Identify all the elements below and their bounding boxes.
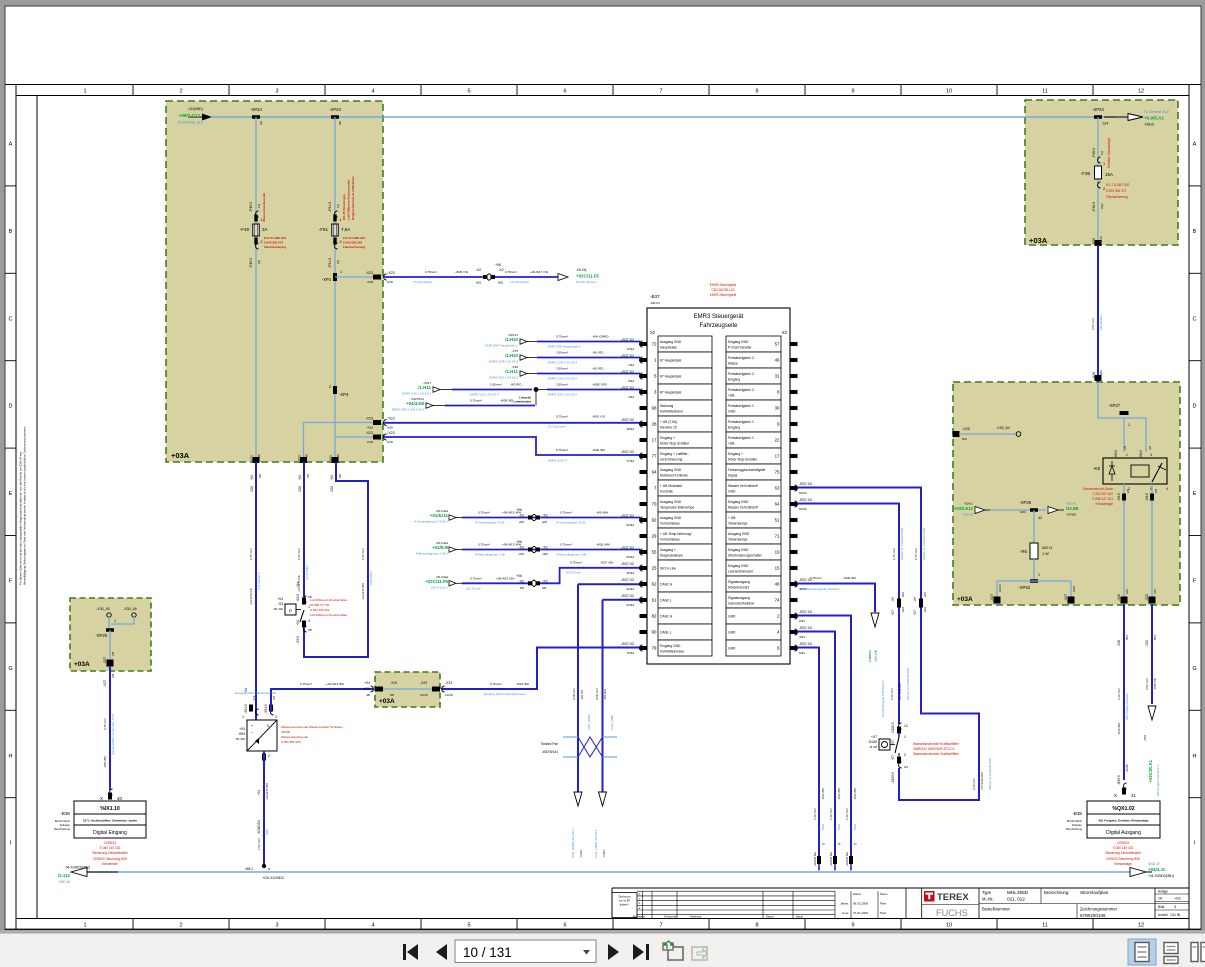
svg-text:2: 2 [179, 923, 182, 929]
svg-text:-F8xx5: -F8xx5 [1144, 123, 1154, 127]
svg-text:/22.B8: /22.B8 [1066, 506, 1079, 511]
svg-text:+04: +04 [250, 475, 254, 481]
svg-text:28/94: 28/94 [626, 427, 634, 431]
svg-text:/1.H10: /1.H10 [505, 353, 518, 358]
svg-text:Klimarelais mit Diode: Klimarelais mit Diode [1083, 487, 1113, 491]
wire: -XP4 column lower runs [334, 281, 336, 462]
K1 bottom edge connectors -X20 [253, 457, 260, 463]
svg-text:30: 30 [775, 406, 780, 411]
svg-text:H-W Niveau S: H-W Niveau S [257, 572, 261, 590]
svg-text:M.-Nr.:: M.-Nr.: [982, 897, 995, 902]
svg-text:+03A: +03A [957, 596, 973, 603]
svg-text:Vorheizlampe: Vorheizlampe [660, 538, 680, 542]
svg-text:Pedalwertgeber 2: Pedalwertgeber 2 [728, 372, 754, 376]
svg-text:Bestellnummer: Bestellnummer [982, 907, 1011, 912]
svg-text:92: 92 [652, 518, 657, 523]
svg-text:+04-XGND2: +04-XGND2 [262, 875, 285, 880]
svg-text:17: 17 [652, 438, 657, 443]
svg-text:5/6: 5/6 [1154, 488, 1158, 493]
svg-text:7,5A: 7,5A [341, 227, 350, 232]
svg-text:-XP4: -XP4 [339, 392, 349, 397]
svg-text:-B37:X2: -B37:X2 [621, 546, 634, 550]
page layout icon: single page (active) [1128, 939, 1156, 965]
svg-text:1: 1 [1103, 162, 1105, 166]
svg-text:-YBJ: -YBJ [1143, 735, 1147, 742]
wire row3 with junction -XL60 [452, 389, 532, 391]
svg-text:Ausgang GND: Ausgang GND [660, 340, 682, 344]
CAN down arrows [574, 792, 582, 806]
svg-text:1,50 mm²: 1,50 mm² [257, 838, 261, 850]
bottom toolbar background [0, 930, 1205, 934]
wire: S54 pin3 feed [271, 689, 373, 712]
svg-text:0,58 mm²: 0,58 mm² [572, 688, 576, 700]
svg-text:-W20 /YE: -W20 /YE [592, 415, 605, 419]
svg-text:102: 102 [1125, 589, 1129, 594]
svg-text:+07: +07 [871, 735, 877, 739]
svg-text:+ UB Temp.Warnung/: + UB Temp.Warnung/ [660, 532, 692, 536]
svg-text:GND: GND [728, 410, 736, 414]
svg-text:b05: b05 [476, 281, 481, 285]
svg-text:/1.H10: /1.H10 [505, 337, 518, 342]
svg-text:Stromlaufplan: Stromlaufplan [1080, 890, 1109, 895]
svg-text:61: 61 [652, 598, 657, 603]
svg-text:Eingang GND: Eingang GND [728, 500, 749, 504]
svg-text:9/18: 9/18 [1072, 586, 1076, 592]
svg-text:+03A: +03A [171, 451, 190, 460]
svg-text:Eingang GND: Eingang GND [660, 644, 681, 648]
svg-text:p05: p05 [519, 520, 524, 524]
svg-text:%IX1.10: %IX1.10 [100, 806, 120, 812]
svg-text:+02C/11.F5: +02C/11.F5 [576, 274, 599, 279]
svg-text:25: 25 [652, 566, 657, 571]
svg-text:S 591 660 982: S 591 660 982 [310, 608, 330, 612]
wire: fuse column 2 (light blue) [334, 117, 336, 277]
svg-text:1,00 mm²: 1,00 mm² [361, 548, 365, 560]
toolbar page combobox [455, 940, 596, 963]
svg-text:H: H [9, 753, 13, 759]
svg-text:Name: Name [880, 892, 888, 896]
svg-text:0,75mm²: 0,75mm² [478, 543, 490, 547]
svg-text:LD-Schalter: LD-Schalter [305, 565, 309, 580]
K2 circles -X30_45 -X30_48 [107, 613, 111, 617]
svg-text:-S150:X: -S150:X [891, 771, 895, 783]
svg-text:29: 29 [652, 534, 657, 539]
svg-text:Eingang + Luftfilter-: Eingang + Luftfilter- [660, 452, 689, 456]
svg-text:Wasser im Kraftstoff: Wasser im Kraftstoff [728, 506, 758, 510]
svg-text:Eingang: Eingang [728, 378, 740, 382]
svg-text:5 030 652 007: 5 030 652 007 [264, 241, 284, 245]
svg-text:9B: 9B [336, 454, 340, 458]
svg-text:SSV-XDRV: SSV-XDRV [369, 571, 373, 585]
svg-text:1/6: 1/6 [1123, 445, 1127, 450]
svg-text:3: 3 [275, 89, 278, 95]
svg-text:CAN2 H: CAN2 H [660, 583, 673, 587]
svg-text:+04/4.J1: +04/4.J1 [1148, 867, 1166, 872]
svg-text:12: 12 [1138, 923, 1144, 929]
svg-text:1: 1 [340, 270, 342, 274]
svg-text:4: 4 [371, 89, 374, 95]
svg-text:502: 502 [1125, 635, 1129, 640]
svg-text:-S54: -S54 [238, 732, 245, 736]
resistor -R6 600 Ohm [1033, 510, 1035, 543]
svg-text:Eingang: Eingang [728, 426, 740, 430]
svg-text:-XP365: -XP365 [1066, 513, 1076, 517]
svg-text:1/4: 1/4 [252, 695, 256, 700]
connector -XP29 [106, 628, 114, 632]
toolbar next-view icon (disabled) [692, 947, 707, 960]
svg-text:+UB: +UB [728, 442, 735, 446]
svg-text:e06: e06 [923, 592, 927, 597]
svg-text:Ausgang GND: Ausgang GND [728, 532, 750, 536]
svg-text:Eingang GND: Eingang GND [728, 548, 749, 552]
svg-text:-W24 /BU: -W24 /BU [516, 682, 529, 686]
svg-text:Ort: Ort [1158, 897, 1163, 901]
svg-text:40: 40 [117, 796, 122, 801]
svg-text:+ UB Motorlauf: + UB Motorlauf [660, 484, 682, 488]
svg-text:EMR3 X2R:1 K5 K5.3: EMR3 X2R:1 K5 K5.3 [489, 360, 518, 364]
fuse -F36 15A [1095, 166, 1102, 179]
svg-text:10 / 131: 10 / 131 [463, 945, 512, 960]
svg-text:-B37:X2: -B37:X2 [621, 386, 634, 390]
svg-text:-S54:X: -S54:X [244, 703, 248, 714]
drawing frame outer border [5, 84, 1201, 86]
svg-text:55/94: 55/94 [626, 555, 634, 559]
svg-text:D: D [9, 404, 13, 410]
svg-text:Ölwarnlampe: Ölwarnlampe [728, 522, 748, 526]
svg-text:+02C/11.F6: +02C/11.F6 [425, 579, 448, 584]
svg-text:77/94: 77/94 [626, 459, 634, 463]
svg-text:Flachsicherung: Flachsicherung [1106, 195, 1128, 199]
svg-text:1: 1 [1038, 573, 1040, 577]
svg-text:X: X [100, 796, 103, 801]
svg-text:+ UB: + UB [728, 516, 736, 520]
svg-text:EMR GND Hauptrelais.2: EMR GND Hauptrelais.2 [548, 345, 581, 349]
svg-text:8.S.711.685-002: 8.S.711.685-002 [343, 236, 365, 240]
svg-text:-W5 /WH: -W5 /WH [596, 511, 608, 515]
svg-text:G60: G60 [1020, 510, 1026, 514]
svg-text:10/18: 10/18 [420, 693, 428, 697]
svg-text:68: 68 [652, 406, 657, 411]
svg-text:3B: 3B [308, 628, 312, 632]
svg-text:+03/2.E12: +03/2.E12 [954, 506, 974, 511]
svg-text:87 Hauptrelais: 87 Hauptrelais [660, 359, 682, 363]
svg-text:TEREX: TEREX [937, 892, 969, 903]
svg-text:62: 62 [652, 582, 657, 587]
svg-text:74: 74 [775, 598, 780, 603]
wire: into -XP27 and relay coil [1098, 382, 1146, 452]
svg-text:Masse: Masse [728, 362, 738, 366]
svg-text:Wasser im Kraftstoff: Wasser im Kraftstoff [728, 484, 758, 488]
svg-text:F2 Klemme 15.6: F2 Klemme 15.6 [1144, 110, 1169, 114]
svg-text:-X10(MB1): -X10(MB1) [188, 107, 203, 111]
svg-text:GND.AL: GND.AL [1066, 502, 1078, 506]
svg-text:-S54:X: -S54:X [264, 703, 268, 714]
svg-text:ISO K-Line.1: ISO K-Line.1 [431, 585, 449, 589]
svg-text:Wasser im Kraftstoff GND: Wasser im Kraftstoff GND [906, 668, 910, 700]
left edge connector -X26 with -X30_84 [953, 431, 960, 437]
svg-text:Fahrzeuggeschwindigkeit: Fahrzeuggeschwindigkeit [728, 468, 765, 472]
svg-text:1: 1 [1126, 453, 1128, 457]
svg-text:Software: Software [1072, 823, 1083, 827]
svg-text:-W2 /RD: -W2 /RD [592, 367, 604, 371]
svg-text:Gebläse Klimaanlage: Gebläse Klimaanlage [1107, 137, 1111, 168]
svg-text:-B35: -B35 [60, 811, 70, 816]
svg-text:Hochdruckfilter Schwenken S171: Hochdruckfilter Schwenken S171 [111, 713, 115, 755]
svg-text:4/94: 4/94 [799, 635, 805, 639]
svg-text:Motor Stop-Schalter: Motor Stop-Schalter [728, 458, 758, 462]
svg-text:-X20: -X20 [250, 486, 254, 493]
svg-text:H-Vorheizlampe /GHZ: H-Vorheizlampe /GHZ [556, 521, 586, 525]
EMR3 right pin rows [726, 336, 781, 352]
svg-text:A: A [9, 142, 13, 148]
svg-text:-64LC3: -64LC3 [650, 301, 660, 305]
svg-text:131 Bl.: 131 Bl. [1170, 913, 1181, 917]
svg-text:nur im EP: nur im EP [619, 899, 631, 903]
svg-text:-X30_84: -X30_84 [996, 426, 1010, 430]
svg-text:-X20: -X20 [330, 486, 334, 493]
svg-text:602: 602 [962, 437, 967, 441]
connector -XP24 pin 6 [331, 115, 339, 119]
svg-text:EMR3 X2K:1 K5 K5.3: EMR3 X2K:1 K5 K5.3 [402, 392, 431, 396]
svg-text:2/18: 2/18 [367, 440, 373, 444]
svg-text:-XP53: -XP53 [1018, 585, 1030, 590]
svg-text:-XP27: -XP27 [1108, 403, 1120, 408]
title block: Zeichnungsnummer [1076, 904, 1078, 919]
svg-text:Ausgang GND: Ausgang GND [660, 516, 682, 520]
svg-text:Wasserstandssonde Wasserschalt: Wasserstandssonde Wasserschalter Schließ… [281, 725, 343, 729]
svg-text:51: 51 [775, 518, 780, 523]
svg-text:Datum: Datum [766, 915, 774, 919]
svg-text:1,50 mm²: 1,50 mm² [845, 808, 849, 820]
svg-text:Digital Ausgang: Digital Ausgang [1106, 830, 1141, 836]
svg-text:FUCHS: FUCHS [936, 908, 968, 918]
wires right GND rows 2/4/6 [797, 616, 851, 857]
svg-text:-B37:X2: -B37:X2 [621, 338, 634, 342]
svg-text:0,75mm²: 0,75mm² [478, 511, 490, 515]
svg-text:64/94: 64/94 [799, 507, 807, 511]
svg-text:4: 4 [838, 843, 842, 845]
svg-text:GND: GND [837, 824, 841, 830]
GND verticals bottom connectors [817, 856, 821, 864]
svg-text:64: 64 [775, 502, 780, 507]
svg-text:/2.112: /2.112 [58, 873, 71, 878]
svg-text:5 030 650 262: 5 030 650 262 [343, 241, 363, 245]
svg-text:0,75mm²: 0,75mm² [556, 448, 568, 452]
svg-text:5/94: 5/94 [628, 379, 634, 383]
svg-text:94: 94 [652, 470, 657, 475]
svg-text:87 Hauptrelais: 87 Hauptrelais [660, 375, 682, 379]
svg-text:Schwenken: Schwenken [102, 862, 119, 866]
svg-text:-X30_48: -X30_48 [123, 607, 137, 611]
svg-text:-X23: -X23 [420, 681, 427, 685]
svg-text:6: 6 [563, 923, 566, 929]
svg-text:+03A: +03A [74, 661, 90, 668]
svg-text:+09/2.C12: +09/2.C12 [179, 113, 201, 118]
svg-text:m05: m05 [518, 552, 524, 556]
svg-text:CR0020 Steuerung B35: CR0020 Steuerung B35 [93, 857, 127, 861]
svg-text:-S3:X: -S3:X [296, 635, 300, 644]
svg-text:31/98: 31/98 [1125, 764, 1129, 772]
svg-text:2Q: 2Q [336, 259, 340, 264]
svg-text:EMR3 X2K:1 K5 K5.3: EMR3 X2K:1 K5 K5.3 [548, 377, 577, 381]
svg-text:-W6 /YE: -W6 /YE [580, 689, 584, 700]
svg-text:Generatorfunktion: Generatorfunktion [728, 602, 755, 606]
svg-text:Signalausgang: Signalausgang [728, 580, 750, 584]
svg-text:Software: Software [60, 823, 71, 827]
svg-text:0,75mm²: 0,75mm² [810, 576, 822, 580]
svg-text:-X23: -X23 [387, 431, 395, 435]
svg-text:KB Freigabe Gebläse.1: KB Freigabe Gebläse.1 [1156, 765, 1160, 797]
connector -XP27 [1120, 411, 1129, 415]
svg-text:-B37:X2: -B37:X2 [621, 642, 634, 646]
svg-text:EMR3 Steuergerät: EMR3 Steuergerät [710, 293, 737, 297]
svg-text:H-Motordiagnose +UB.1: H-Motordiagnose +UB.1 [416, 552, 449, 556]
svg-text:Klemme 15: Klemme 15 [660, 426, 677, 430]
svg-text:-K8:X: -K8:X [1117, 492, 1121, 501]
svg-text:DK-25 Stromregel-: DK-25 Stromregel- [342, 194, 346, 220]
svg-text:Zeichnungsnummer: Zeichnungsnummer [1080, 907, 1118, 912]
svg-text:-X20: -X20 [363, 687, 370, 691]
svg-text:79/94: 79/94 [626, 651, 634, 655]
svg-text:15-Odometer: 15-Odometer [548, 425, 566, 429]
svg-text:31: 31 [775, 374, 780, 379]
svg-text:Drehzahlsignal S SGNÄhl.1: Drehzahlsignal S SGNÄhl.1 [881, 680, 885, 717]
svg-text:Luft-Differenz-Druckschalter: Luft-Differenz-Druckschalter [310, 613, 347, 617]
svg-text:25/94: 25/94 [626, 571, 634, 575]
wire row55 [462, 549, 640, 551]
svg-text:3/94: 3/94 [628, 395, 634, 399]
svg-text:600 Ω: 600 Ω [1042, 546, 1052, 550]
svg-text:-XP28: -XP28 [1019, 500, 1031, 505]
svg-text:4: 4 [371, 923, 374, 929]
svg-text:EMR3 Steuergerät: EMR3 Steuergerät [710, 283, 737, 287]
svg-text:-S3: -S3 [278, 602, 283, 606]
svg-text:011, 012: 011, 012 [1007, 897, 1025, 902]
svg-text:15: 15 [775, 566, 780, 571]
svg-text:-F36:X: -F36:X [1092, 147, 1096, 158]
svg-text:CAN_H(MR) /8.LH8.1: CAN_H(MR) /8.LH8.1 [571, 829, 575, 858]
svg-text:-W&TW1#1: -W&TW1#1 [542, 750, 559, 754]
svg-text:+03A: +03A [1029, 236, 1048, 245]
svg-text:62/94: 62/94 [626, 587, 634, 591]
svg-text:92/94: 92/94 [626, 523, 634, 527]
svg-text:-XP24: -XP24 [329, 107, 341, 112]
svg-text:Eingang +: Eingang + [660, 436, 675, 440]
svg-text:4: 4 [1166, 487, 1168, 491]
wire row28 from -X23 [384, 422, 640, 424]
svg-text:19/18: 19/18 [998, 584, 1002, 592]
svg-text:Klimaanlage: Klimaanlage [1114, 862, 1132, 866]
svg-text:-X23: -X23 [387, 271, 395, 275]
svg-text:8.S.711.685-003: 8.S.711.685-003 [264, 236, 286, 240]
svg-text:-S3:X: -S3:X [296, 593, 300, 602]
svg-text:Pedalwertgeber 1: Pedalwertgeber 1 [728, 420, 754, 424]
fuse -F51 7,5A [332, 224, 338, 236]
svg-text:57: 57 [775, 342, 780, 347]
svg-text:8: 8 [755, 89, 758, 95]
svg-text:15-Uhr+Motor.1: 15-Uhr+Motor.1 [576, 280, 597, 284]
svg-text:102: 102 [1153, 589, 1157, 594]
svg-text:b05: b05 [498, 281, 503, 285]
toolbar prev button [436, 944, 447, 960]
connector -XP24 pin 24 [1094, 115, 1102, 119]
svg-text:-B37:X2: -B37:X2 [799, 626, 812, 630]
svg-text:t05: t05 [542, 586, 547, 590]
wire right row48 with down arrow [797, 584, 875, 613]
svg-text:-W20 /BU: -W20 /BU [592, 448, 605, 452]
svg-text:3: 3 [308, 619, 310, 623]
svg-text:ISO K-Line: ISO K-Line [660, 567, 676, 571]
svg-text:-X23: -X23 [365, 417, 373, 421]
svg-text:ISO K-Line: ISO K-Line [566, 571, 581, 575]
svg-text:1,50 mm²: 1,50 mm² [829, 808, 833, 820]
svg-text:Ölwarnlampe: Ölwarnlampe [728, 538, 748, 542]
svg-text:0,75 mm²: 0,75 mm² [892, 548, 896, 560]
svg-text:+07: +07 [913, 610, 917, 616]
CAN vertical pair down to arrows [577, 584, 579, 792]
svg-text:-XP29: -XP29 [95, 633, 107, 638]
svg-text:-B37:X2: -B37:X2 [621, 450, 634, 454]
svg-text:TS-Uhr+Motor: TS-Uhr+Motor [413, 280, 432, 284]
destination arrow right of bus [1104, 116, 1128, 118]
svg-text:17: 17 [775, 454, 780, 459]
svg-text:2/94: 2/94 [799, 619, 805, 623]
svg-text:+06-W17 /YE: +06-W17 /YE [530, 270, 548, 274]
svg-text:-W38 /RD: -W38 /RD [500, 399, 514, 403]
svg-text:2,50mm²: 2,50mm² [556, 383, 568, 387]
-XP53 tee [1033, 559, 1035, 581]
svg-text:-W287 /RD: -W287 /RD [592, 383, 608, 387]
svg-text:22: 22 [775, 438, 780, 443]
svg-text:Kühlmittelstand: Kühlmittelstand [660, 410, 683, 414]
khaki area box K1 (+03A main fuse box) [166, 101, 383, 462]
svg-text:5: 5 [467, 89, 470, 95]
wire row79 from K3 [442, 648, 640, 690]
svg-text:+04: +04 [296, 620, 300, 626]
svg-text:2,50 mm²: 2,50 mm² [1145, 678, 1149, 690]
svg-text:1: 1 [83, 89, 86, 95]
svg-text:Hauptrelais: Hauptrelais [660, 346, 677, 350]
svg-text:a: a [268, 867, 270, 871]
svg-text:Steuerung Zentralelektrik: Steuerung Zentralelektrik [92, 851, 128, 855]
svg-text:EMR3 X2R:1 K5 K5.3: EMR3 X2R:1 K5 K5.3 [548, 361, 577, 365]
svg-text:Petri: Petri [880, 902, 887, 906]
svg-text:2/6: 2/6 [1126, 488, 1130, 493]
svg-text:55: 55 [652, 550, 657, 555]
svg-text:8: 8 [755, 923, 758, 929]
svg-text:-K8:X: -K8:X [1139, 449, 1143, 458]
svg-text:3/8: 3/8 [111, 673, 115, 678]
svg-text:5: 5 [467, 923, 470, 929]
svg-text:Überbrückungsschalter: Überbrückungsschalter [728, 554, 763, 558]
svg-text:Anzahl: Anzahl [1158, 913, 1168, 917]
svg-text:63/94: 63/94 [799, 491, 807, 495]
svg-text:S171_Hochdruckfilter_Schwenken: S171_Hochdruckfilter_Schwenken_sauber [83, 819, 137, 823]
svg-text:-X20: -X20 [329, 455, 333, 462]
svg-text:H-Vorheizlampe /GHZ: H-Vorheizlampe /GHZ [475, 521, 505, 525]
svg-text:1: 1 [83, 923, 86, 929]
svg-text:+03: +03 [1174, 897, 1180, 901]
wire row5 [537, 373, 640, 375]
svg-text:3: 3 [275, 715, 277, 719]
svg-text:+07: +07 [891, 755, 895, 761]
svg-text:10: 10 [946, 89, 952, 95]
svg-text:Motorlauf Kontrolle: Motorlauf Kontrolle [660, 474, 688, 478]
wire row62-feed to row25 jog [462, 582, 528, 584]
svg-text:1 W: 1 W [1042, 552, 1049, 556]
svg-text:Fahrzeugseite: Fahrzeugseite [699, 323, 738, 329]
svg-text:-XGND fba: -XGND fba [813, 852, 817, 867]
